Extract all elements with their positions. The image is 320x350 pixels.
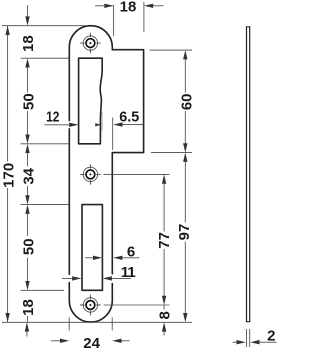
svg-text:12: 12 xyxy=(46,108,59,125)
svg-text:77: 77 xyxy=(156,232,173,249)
svg-text:97: 97 xyxy=(176,224,193,241)
svg-text:24: 24 xyxy=(83,335,100,350)
svg-text:18: 18 xyxy=(20,299,37,316)
svg-text:6.5: 6.5 xyxy=(119,108,139,125)
svg-text:18: 18 xyxy=(20,35,37,52)
svg-text:6: 6 xyxy=(127,244,135,261)
svg-text:11: 11 xyxy=(121,264,136,281)
svg-text:50: 50 xyxy=(20,238,37,255)
svg-text:18: 18 xyxy=(120,0,137,15)
svg-text:170: 170 xyxy=(0,163,17,188)
svg-text:60: 60 xyxy=(179,93,196,110)
svg-text:2: 2 xyxy=(267,328,275,345)
svg-text:50: 50 xyxy=(20,93,37,110)
svg-text:8: 8 xyxy=(156,311,173,319)
svg-text:34: 34 xyxy=(21,167,38,184)
